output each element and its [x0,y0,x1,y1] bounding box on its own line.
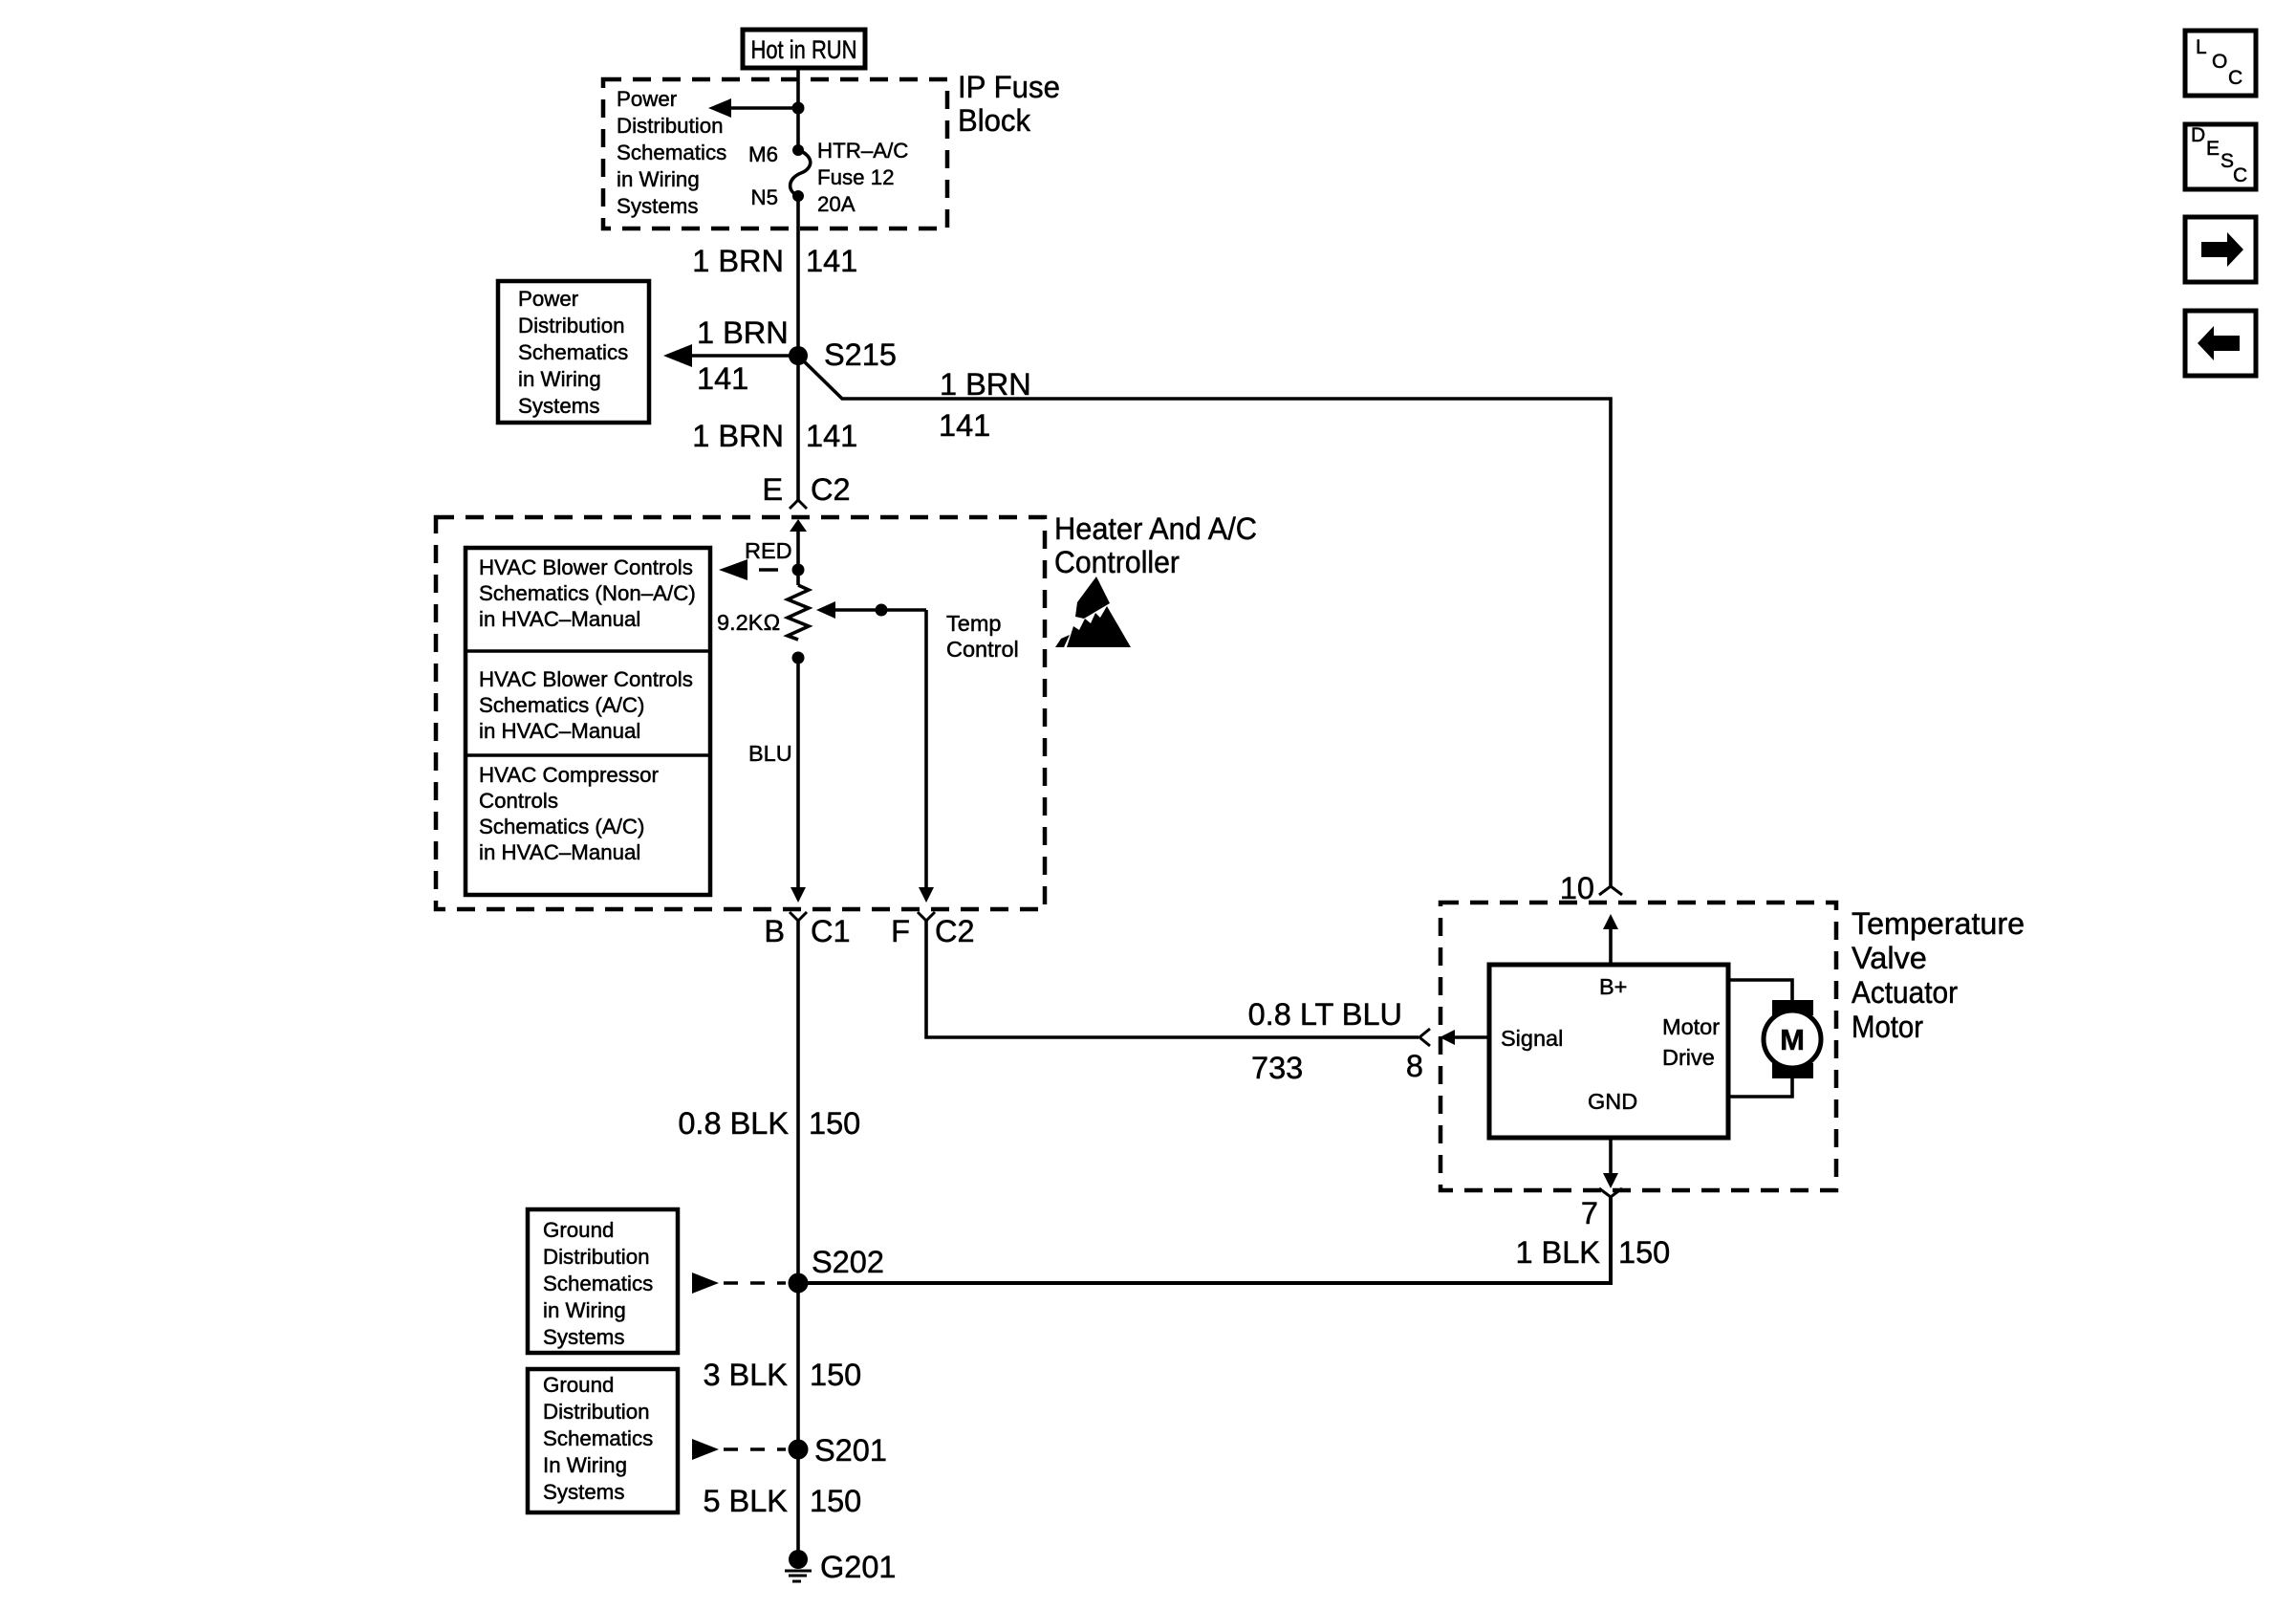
svg-text:1 BRN: 1 BRN [692,419,784,453]
svg-text:7: 7 [1581,1196,1598,1230]
svg-text:L: L [2196,36,2207,58]
svg-text:S215: S215 [824,337,897,372]
splice S215 [789,337,897,372]
HVAC reference box (3 sections) [466,548,710,895]
svg-text:1 BRN: 1 BRN [940,367,1031,402]
svg-text:Systems: Systems [518,394,600,418]
Heater And A/C Controller dashed box [436,517,1045,909]
svg-text:Schematics: Schematics [543,1426,653,1450]
connector C2 pin F fork [918,912,935,921]
node below resistor [792,652,805,664]
sidebar icon next arrow [2185,217,2256,282]
svg-text:150: 150 [809,1106,860,1141]
resistor 9.2KΩ [717,570,809,640]
svg-text:150: 150 [810,1484,861,1518]
down arrow at B exit [791,887,806,903]
svg-text:1 BRN: 1 BRN [692,244,784,278]
svg-text:150: 150 [810,1358,861,1392]
svg-text:E: E [762,472,783,507]
splice S202 [789,1245,884,1294]
svg-text:20A: 20A [817,192,856,216]
wire: F to motor signal, 0.8 LT BLU 733 [926,921,1419,1085]
svg-text:Systems: Systems [617,194,699,218]
svg-text:C2: C2 [811,472,851,507]
wire: S215 down to connector C2 pin E, 1 BRN 141 [692,356,857,501]
sidebar icon LOC [2185,31,2256,96]
svg-text:1 BRN: 1 BRN [697,315,789,350]
Ground Distribution box 1 [528,1209,678,1353]
svg-text:Signal: Signal [1501,1026,1563,1051]
svg-text:in HVAC–Manual: in HVAC–Manual [479,607,640,631]
wire: pin 7 to splice S202, 1 BLK 150 [798,1197,1670,1283]
svg-text:0.8 BLK: 0.8 BLK [678,1106,789,1141]
arrow: S215 to power distribution schematics box, 1 BRN 141 [663,315,798,396]
connector C1 pin B fork [790,912,807,921]
svg-text:S202: S202 [812,1245,884,1279]
svg-text:141: 141 [806,244,857,278]
svg-text:Systems: Systems [543,1325,625,1349]
IP Fuse Block dashed box [603,79,947,228]
svg-text:HVAC Compressor: HVAC Compressor [479,763,659,787]
junction node in fuse block [792,102,805,115]
wire: fuse to splice S215, 1 BRN 141 [796,196,800,356]
connector pin 8 male arrow into motor [1440,1030,1489,1045]
svg-text:141: 141 [806,419,857,453]
svg-text:Temp: Temp [946,611,1001,636]
svg-text:Temperature: Temperature [1852,906,2025,941]
motor drive module box [1489,965,1728,1138]
svg-text:C2: C2 [935,914,975,948]
IP Fuse Block label [958,70,1060,138]
connector pin 8 female fork [1419,1029,1430,1046]
Temperature Valve Actuator Motor label [1852,906,2025,1044]
svg-text:150: 150 [1618,1235,1670,1270]
svg-text:141: 141 [697,361,748,396]
svg-text:Distribution: Distribution [543,1245,650,1269]
svg-text:G201: G201 [820,1550,897,1584]
down arrow at F exit [919,887,934,903]
fuse value label HTR-A/C Fuse 12 20A [817,139,908,216]
sidebar icon DESC [2185,124,2256,189]
connector label F C2 [891,914,974,948]
svg-text:Block: Block [958,103,1031,138]
svg-text:Schematics (Non–A/C): Schematics (Non–A/C) [479,581,696,605]
svg-text:Actuator: Actuator [1852,975,1958,1010]
svg-text:Motor: Motor [1662,1014,1720,1039]
svg-text:D: D [2191,124,2205,146]
svg-text:Ground: Ground [543,1373,614,1397]
svg-text:Control: Control [946,637,1019,662]
dashed arrow: ground box 2 to S201 [692,1439,786,1460]
svg-text:Power: Power [518,287,579,311]
temp control wiper arrow [816,601,926,889]
svg-text:3 BLK: 3 BLK [703,1358,788,1392]
svg-text:Schematics: Schematics [543,1272,653,1295]
wire label 1 BRN 141 (top) [692,244,857,278]
wire: S202 to S201, 3 BLK 150 [703,1283,861,1449]
svg-text:Controls: Controls [479,789,558,813]
svg-text:Motor: Motor [1852,1010,1923,1044]
Ground Distribution box 2 [528,1369,678,1512]
motor M [1764,1000,1821,1078]
svg-text:F: F [891,914,910,948]
svg-text:HVAC Blower Controls: HVAC Blower Controls [479,555,693,579]
svg-text:733: 733 [1251,1051,1303,1085]
wire: module to motor (top) [1728,980,1792,1000]
wire: motor to module (bottom) [1728,1077,1792,1097]
svg-text:in HVAC–Manual: in HVAC–Manual [479,719,640,743]
connector pin 7 fork [1599,1188,1622,1197]
svg-text:HTR–A/C: HTR–A/C [817,139,908,163]
wire: B down to splice S202, 0.8 BLK 150 [678,921,860,1283]
svg-text:Ground: Ground [543,1218,614,1242]
svg-text:1 BLK: 1 BLK [1515,1235,1600,1270]
svg-text:B+: B+ [1599,974,1627,999]
wire: S215 to temperature valve actuator motor B+, 1 BRN 141 [798,356,1611,886]
splice S201 [789,1433,887,1468]
svg-text:M: M [1780,1023,1805,1056]
svg-text:Heater And A/C: Heater And A/C [1054,511,1257,546]
connector C2 pin E male arrow into controller [790,519,807,570]
fuse F12 HTR-A/C 20A element [791,144,811,202]
svg-text:N5: N5 [750,185,778,209]
svg-text:in HVAC–Manual: in HVAC–Manual [479,840,640,864]
connector pin 10 fork [1599,886,1622,895]
svg-text:O: O [2212,51,2227,73]
wire: S201 to ground G201, 5 BLK 150 [703,1449,861,1561]
svg-text:GND: GND [1588,1089,1637,1114]
svg-text:BLU: BLU [748,741,792,766]
svg-text:Power: Power [617,87,678,111]
svg-text:Drive: Drive [1662,1045,1715,1070]
svg-text:RED: RED [745,538,792,563]
svg-text:Fuse 12: Fuse 12 [817,165,895,189]
svg-text:HVAC Blower Controls: HVAC Blower Controls [479,667,693,691]
svg-text:Schematics (A/C): Schematics (A/C) [479,815,644,838]
svg-text:M6: M6 [748,142,778,166]
svg-text:8: 8 [1406,1049,1423,1083]
wire: resistor to connector C1 pin B, BLU [748,658,798,889]
wire: Hot in RUN feed down to fuse [796,68,800,150]
Temperature Valve Actuator Motor dashed box [1440,903,1836,1190]
svg-text:in Wiring: in Wiring [617,167,700,191]
connector label B C1 [764,914,850,948]
Power Distribution Schematics in Wiring Systems box [498,281,649,423]
svg-text:Distribution: Distribution [518,314,625,337]
svg-text:Schematics (A/C): Schematics (A/C) [479,693,644,717]
svg-text:C: C [2228,67,2242,89]
svg-text:in Wiring: in Wiring [543,1298,626,1322]
connector C2 pin E female fork [790,500,807,509]
connector label E C2 [762,472,850,507]
svg-text:10: 10 [1560,871,1594,905]
power feed box "Hot in RUN" [743,30,865,68]
svg-text:B: B [764,914,785,948]
svg-text:Valve: Valve [1852,941,1927,975]
dashed arrow: ground box 1 to S202 [692,1273,786,1294]
dashed arrow: RED to HVAC blower controls [719,538,792,580]
Heater And A/C Controller label [1054,511,1257,579]
svg-text:Schematics: Schematics [518,340,628,364]
svg-text:S: S [2220,150,2234,172]
svg-text:Distribution: Distribution [543,1400,650,1424]
svg-text:5 BLK: 5 BLK [703,1484,788,1518]
Temp Control label [946,611,1019,662]
svg-text:Schematics: Schematics [617,141,726,164]
reference note: Power Distribution Schematics in Wiring Systems (inside fuse block) [617,87,726,218]
ESD sensitive device symbol [1055,577,1131,647]
svg-text:Systems: Systems [543,1480,625,1504]
connector pin 10 male arrow to B+ [1603,914,1618,965]
svg-text:0.8 LT BLU: 0.8 LT BLU [1248,997,1402,1032]
node: RED tap junction [792,564,805,577]
svg-text:IP Fuse: IP Fuse [958,70,1060,104]
wire: GND down to pin 7 [1603,1138,1618,1188]
svg-text:C1: C1 [811,914,851,948]
svg-text:E: E [2206,138,2220,160]
svg-text:141: 141 [939,408,990,443]
svg-text:C: C [2233,164,2247,186]
svg-text:In Wiring: In Wiring [543,1453,627,1477]
svg-text:Hot in RUN: Hot in RUN [751,35,857,64]
svg-text:S201: S201 [814,1433,887,1468]
svg-text:Controller: Controller [1054,545,1180,579]
arrow: feed to power distribution schematics [708,98,798,118]
sidebar icon previous arrow [2185,311,2256,376]
svg-text:in Wiring: in Wiring [518,367,601,391]
svg-text:Distribution: Distribution [617,114,724,138]
ground G201 [785,1550,897,1584]
svg-text:9.2KΩ: 9.2KΩ [717,610,780,635]
